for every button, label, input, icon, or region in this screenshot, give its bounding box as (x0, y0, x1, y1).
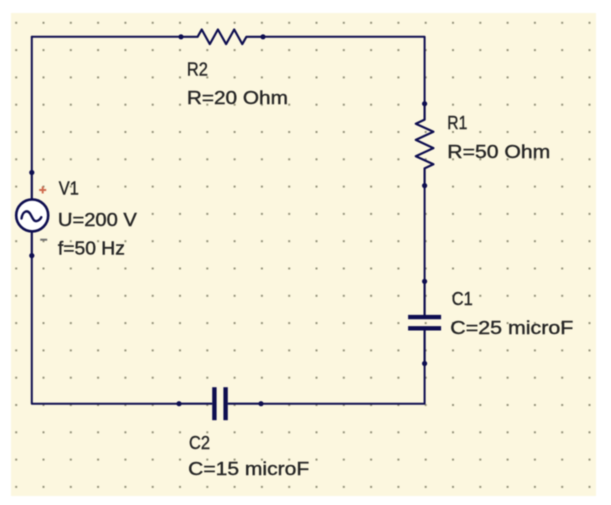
node: R1 top terminal junction (422, 101, 427, 106)
svg-text:C=25 microF: C=25 microF (450, 318, 573, 338)
node: C1 top terminal junction (422, 279, 427, 284)
resistor R2 (181, 30, 263, 45)
node: C1 bottom terminal junction (422, 361, 427, 366)
resistor R1 (416, 104, 434, 186)
svg-text:V1: V1 (59, 179, 79, 199)
svg-text:U=200 V: U=200 V (58, 210, 137, 230)
node: R1 bottom terminal junction (422, 183, 427, 188)
node: R2 left terminal junction (178, 34, 183, 39)
leads (31, 173, 33, 256)
wire C1 to bottom-right corner and to C2 (261, 364, 425, 404)
svg-text:C2: C2 (189, 433, 210, 453)
wire V1 to top-left corner (31, 37, 33, 173)
wire top-left to R2 (32, 36, 181, 38)
svg-text:f=50 Hz: f=50 Hz (58, 239, 125, 259)
svg-text:C1: C1 (452, 289, 473, 309)
node: C2 left terminal junction (176, 401, 181, 406)
svg-text:R1: R1 (447, 113, 467, 133)
wire R2 to top-right corner and down to R1 (263, 37, 425, 104)
svg-text:C=15 microF: C=15 microF (188, 459, 309, 479)
node: C2 right terminal junction (258, 401, 263, 406)
svg-text:R=50 Ohm: R=50 Ohm (447, 142, 550, 162)
sine wave (22, 211, 42, 221)
minus marker (40, 239, 47, 241)
plus marker (39, 187, 46, 194)
node: R2 right terminal junction (260, 34, 265, 39)
svg-text:R2: R2 (187, 60, 208, 80)
wire C2 to bottom-left corner and up to V1 (32, 256, 179, 404)
voltage source V1 (16, 170, 48, 258)
svg-text:R=20 Ohm: R=20 Ohm (187, 88, 288, 108)
wire R1 to C1 (424, 186, 426, 282)
capacitor C1 (408, 281, 441, 363)
capacitor C2 (179, 387, 261, 420)
